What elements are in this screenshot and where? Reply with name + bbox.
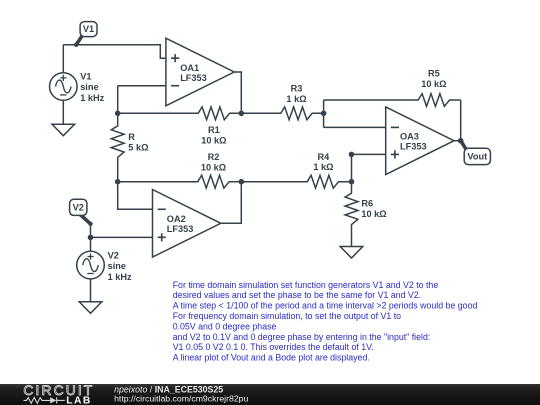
- plus input OA1: [171, 54, 179, 62]
- wire: [324, 126, 386, 128]
- svg-text:R1: R1: [208, 125, 220, 135]
- svg-text:V2: V2: [108, 250, 119, 260]
- svg-text:http://circuitlab.com/cm9ckrej: http://circuitlab.com/cm9ckrejr82pu: [114, 394, 248, 404]
- svg-text:V1 0.05 0 V2 0.1 0. This overr: V1 0.05 0 V2 0.1 0. This overrides the d…: [173, 342, 374, 352]
- svg-text:10 kΩ: 10 kΩ: [201, 135, 226, 145]
- wire: [117, 86, 119, 114]
- footer bar: [0, 384, 540, 405]
- wire: [221, 182, 242, 224]
- wire: [118, 182, 153, 210]
- voltage source V2: [77, 251, 105, 279]
- svg-text:LAB: LAB: [66, 395, 92, 405]
- wire: [323, 100, 325, 127]
- minus input OA3: [391, 126, 399, 128]
- svg-text:1 kHz: 1 kHz: [80, 93, 104, 103]
- svg-text:A linear plot of Vout and a Bo: A linear plot of Vout and a Bode plot ar…: [173, 353, 370, 363]
- node: [88, 235, 94, 241]
- node V1 flag: [76, 35, 82, 45]
- svg-text:sine: sine: [108, 261, 126, 271]
- wire: [90, 237, 92, 251]
- svg-text:1 kΩ: 1 kΩ: [313, 162, 333, 172]
- svg-text:5 kΩ: 5 kΩ: [128, 142, 148, 152]
- wire: [118, 85, 166, 87]
- svg-text:desired values and set the pha: desired values and set the phase to be t…: [173, 290, 421, 300]
- svg-text:R5: R5: [428, 69, 440, 79]
- wire: [62, 45, 64, 73]
- ground: [52, 124, 75, 136]
- svg-text:For frequency domain simulatio: For frequency domain simulation, to set …: [173, 311, 401, 321]
- wire: [90, 225, 92, 238]
- wire: [351, 154, 353, 181]
- op-amp OA3: [386, 107, 454, 175]
- node: [458, 138, 464, 144]
- svg-text:For time domain simulation set: For time domain simulation set function …: [173, 280, 439, 290]
- wire: [62, 100, 64, 124]
- svg-text:R2: R2: [208, 152, 220, 162]
- ground: [340, 247, 363, 259]
- resistor R4: [241, 175, 351, 188]
- svg-text:V1: V1: [80, 71, 91, 81]
- minus input OA1: [171, 85, 179, 87]
- wire: [234, 72, 242, 113]
- svg-text:R: R: [128, 132, 135, 142]
- wire: [454, 140, 461, 142]
- svg-text:OA3: OA3: [400, 132, 419, 142]
- svg-text:LF353: LF353: [180, 73, 207, 83]
- minus input OA2: [158, 208, 166, 210]
- op-amp OA1: [166, 38, 234, 106]
- svg-text:LF353: LF353: [400, 142, 427, 152]
- svg-text:10 kΩ: 10 kΩ: [361, 209, 386, 219]
- wire: [460, 100, 462, 141]
- svg-text:OA1: OA1: [180, 63, 199, 73]
- node: [115, 179, 121, 185]
- ground: [79, 302, 102, 314]
- svg-text:sine: sine: [80, 82, 98, 92]
- svg-text:V1: V1: [83, 24, 94, 34]
- node: [349, 152, 355, 158]
- svg-text:10 kΩ: 10 kΩ: [201, 162, 226, 172]
- resistor R2: [118, 175, 242, 188]
- wire: [90, 279, 92, 302]
- node V2 flag: [79, 214, 90, 224]
- node: [115, 111, 121, 117]
- svg-text:LF353: LF353: [167, 224, 194, 234]
- node: [349, 179, 355, 185]
- svg-text:R4: R4: [318, 152, 331, 162]
- svg-text:A time step < 1/100 of the per: A time step < 1/100 of the period and a …: [173, 301, 478, 311]
- voltage source V1: [50, 73, 78, 101]
- op-amp OA2: [153, 190, 221, 258]
- svg-text:10 kΩ: 10 kΩ: [421, 79, 446, 89]
- wire: [91, 236, 153, 238]
- svg-text:R3: R3: [291, 84, 303, 94]
- resistor R: [111, 113, 124, 181]
- svg-text:V2: V2: [73, 202, 84, 212]
- svg-text:and V2 to 0.1V and 0 degree ph: and V2 to 0.1V and 0 degree phase by ent…: [173, 332, 431, 342]
- node: [321, 111, 327, 117]
- node Vout flag: [461, 141, 467, 151]
- node: [239, 111, 245, 117]
- svg-text:0.05V and 0 degree phase: 0.05V and 0 degree phase: [173, 321, 277, 331]
- plus input OA2: [158, 233, 166, 241]
- svg-text:OA2: OA2: [167, 214, 186, 224]
- resistor R6: [345, 182, 358, 247]
- wire: [352, 153, 386, 155]
- resistor R1: [118, 107, 242, 120]
- svg-text:R6: R6: [361, 199, 373, 209]
- svg-text:1 kHz: 1 kHz: [108, 272, 132, 282]
- resistor R5: [324, 94, 461, 107]
- svg-text:1 kΩ: 1 kΩ: [286, 94, 306, 104]
- wire: [63, 45, 166, 59]
- svg-text:Vout: Vout: [467, 152, 487, 162]
- resistor R3: [241, 107, 323, 120]
- plus input OA3: [391, 150, 399, 158]
- node: [239, 179, 245, 185]
